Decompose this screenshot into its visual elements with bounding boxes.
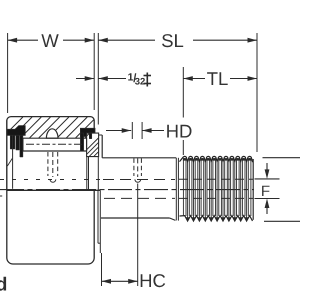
left seal leg 1 <box>10 135 15 149</box>
shank lube hole center <box>137 158 139 177</box>
dimension 1/32 (offset) <box>76 73 145 84</box>
F label <box>262 186 269 196</box>
F arrow top <box>266 163 268 170</box>
head lube hole drill cup <box>50 179 56 182</box>
HC extension line right (hole center) <box>137 184 139 287</box>
thread end face <box>252 159 254 220</box>
double dagger note symbol <box>144 73 152 87</box>
shank lube hole hidden lines <box>133 158 135 176</box>
dimension TL <box>183 72 257 85</box>
stud head raceway line <box>23 150 87 152</box>
lube hole dome in outer ring <box>46 129 58 138</box>
left end plate lines <box>12 135 14 189</box>
head lube hole hidden lines <box>47 152 49 176</box>
stud head flange boundary below block <box>86 157 88 191</box>
end plate hatch stroke <box>7 159 12 167</box>
needle roller left face <box>22 138 24 151</box>
extension line SL/TL right (thread end) <box>256 33 258 152</box>
thread OD extension line upper (cut off at edge) <box>263 157 301 159</box>
needle roller right face <box>86 138 88 151</box>
outer ring bore line <box>23 137 87 139</box>
threaded portion <box>180 156 254 221</box>
end plate face below block <box>97 157 99 191</box>
axis section boundary line <box>7 189 101 191</box>
F extension line bottom <box>255 198 280 200</box>
HC dimension line <box>102 274 166 287</box>
right seal leg <box>80 133 83 151</box>
roller center line <box>26 143 84 145</box>
dimension HD (lube hole diameter) <box>106 122 192 139</box>
stud shank top edge <box>102 157 176 159</box>
thread undercut lines <box>175 158 177 221</box>
caption letter d (cut off) <box>0 277 6 291</box>
dimension W <box>8 34 95 47</box>
shank chamfer to undercut <box>170 218 176 220</box>
stud head flange section (hatched) <box>87 133 99 157</box>
right seal (black) <box>80 128 95 136</box>
dimension SL <box>98 34 257 47</box>
shank lube hole drill cup <box>135 179 141 182</box>
extension line TL left (thread start) <box>182 67 184 118</box>
stud head top edge (right of plate) <box>99 134 103 136</box>
right seal leg 2 <box>89 133 92 139</box>
hidden line socket top <box>0 179 100 181</box>
end plate silhouette lower <box>97 190 99 243</box>
stud head face <box>101 135 103 158</box>
left seal leg 3 <box>20 135 23 157</box>
hidden line socket bottom <box>104 197 175 199</box>
axis center line <box>0 189 254 191</box>
head lube hole center line <box>52 152 54 177</box>
extension line end plate face <box>97 33 99 125</box>
left seal leg 2 <box>16 135 19 150</box>
HC extension line left (head face) <box>101 253 103 286</box>
stud head silhouette lower <box>99 190 101 253</box>
left seal (black) <box>7 126 25 136</box>
outer ring hatching <box>7 117 93 138</box>
roller outer ring outline <box>11 117 94 130</box>
thread OD extension line lower (cut off at edge) <box>264 220 300 222</box>
dimension W extension line left <box>7 33 9 113</box>
stud shank bottom edge <box>101 217 170 219</box>
extension line roller right face <box>93 33 95 110</box>
F arrow bottom <box>266 207 268 214</box>
F extension line top <box>255 178 280 180</box>
